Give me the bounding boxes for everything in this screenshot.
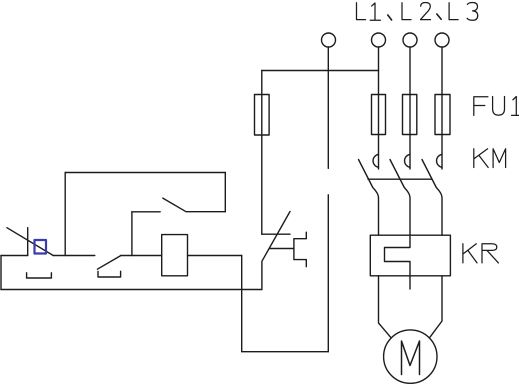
start button SB2 actuator bracket	[98, 271, 121, 277]
fuse FU1 pole 2	[403, 95, 417, 135]
terminal circle L1	[372, 33, 386, 47]
wire KR to motor left	[379, 276, 392, 338]
wire control line seg 1	[1, 255, 28, 257]
contactor KM pole 1 arc	[373, 154, 378, 167]
wire aux branch left vertical	[64, 173, 66, 256]
contactor KM linkage	[368, 178, 432, 180]
wire control line seg 4	[188, 255, 242, 257]
contactor KM pole 1 blade	[359, 160, 379, 236]
label KM	[474, 149, 506, 168]
thermal relay KR heater element	[385, 235, 411, 289]
wire L1 vertical	[378, 47, 380, 169]
wire bottom return	[1, 289, 262, 291]
wire L2 vertical	[409, 47, 411, 169]
fuse FU (control)	[255, 95, 270, 136]
contactor KM pole 2 blade	[390, 160, 410, 236]
thermal contact KR connector	[269, 248, 294, 250]
thermal contact KR blade	[262, 212, 290, 290]
contactor KM pole 3 arc	[437, 154, 442, 167]
wire bottom link	[242, 351, 329, 353]
wire control left return	[0, 256, 2, 290]
wire control-tap stem lower	[327, 195, 329, 352]
motor M1 circle	[384, 330, 437, 383]
terminal circle (control tap)	[322, 33, 336, 47]
wire control line seg 2	[53, 255, 95, 257]
fuse FU1 pole 1	[372, 95, 386, 135]
aux contact KM left lead	[132, 211, 160, 213]
wire aux branch right vertical	[224, 173, 226, 212]
wire aux branch top	[65, 172, 225, 174]
wire L3 vertical	[441, 47, 443, 169]
fuse FU1 pole 3	[435, 95, 450, 135]
aux contact KM blade	[163, 198, 186, 212]
wire control-tap stem upper	[327, 47, 329, 168]
stop button SB1 grip (blue)	[35, 240, 47, 254]
coil KM	[162, 235, 188, 276]
motor letter M	[402, 341, 420, 375]
stop button SB1 blade	[7, 228, 53, 256]
aux contact KM right lead	[186, 211, 225, 213]
thermal contact KR strap	[294, 232, 306, 267]
wire right drop	[241, 256, 243, 352]
thermal relay KR box	[370, 235, 450, 276]
label L1.L2.L3	[357, 3, 478, 21]
wire control bus	[262, 70, 379, 72]
contactor KM pole 3 blade	[422, 160, 442, 236]
wire KR to motor right	[429, 276, 442, 338]
wire control drop to fuse	[261, 71, 263, 235]
thermal contact KR bar	[262, 233, 290, 235]
wire aux branch drop	[131, 212, 133, 256]
terminal circle L3	[435, 33, 449, 47]
stop button SB1 post	[27, 228, 29, 256]
terminal circle L2	[403, 33, 417, 47]
label FU1	[474, 97, 519, 116]
label KR	[463, 244, 499, 263]
wire control line seg 3	[121, 255, 162, 257]
contactor KM pole 2 arc	[405, 154, 410, 167]
start button SB2 blade	[97, 256, 120, 270]
stop button SB1 actuator bracket	[27, 273, 52, 278]
